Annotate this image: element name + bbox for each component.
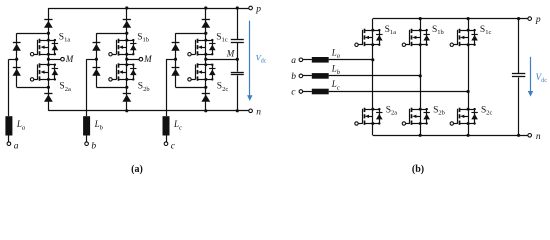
junction on p rail at leg b (b) — [419, 17, 422, 20]
junction on p rail at leg b — [125, 6, 128, 9]
column junction node phase c (a) — [174, 58, 177, 61]
top diode phase b (a) — [123, 19, 131, 21]
top diode phase c (a) — [202, 19, 210, 21]
inductor Lb (a) — [83, 116, 90, 135]
terminal M phase a (a) — [61, 57, 65, 61]
wire bottom node to freewheel column phase b (a) — [96, 87, 126, 89]
junction on n rail at leg b — [125, 109, 128, 112]
top node phase c (a) — [204, 32, 207, 35]
n rail (b) — [373, 135, 530, 137]
node M phase b (a) — [125, 58, 128, 61]
svg-text:n: n — [256, 107, 261, 117]
MOSFET S2c (b) — [453, 108, 478, 125]
column upper diode phase c (a) — [172, 42, 180, 44]
wire terminal to inductor phase b (b) — [303, 75, 312, 77]
MOSFET S2b — [112, 63, 137, 81]
wire lower capacitor to n rail (a) — [237, 75, 239, 110]
inductor feed wire phase b (a) — [86, 59, 88, 116]
wire inductor to leg phase c (b) — [329, 91, 468, 93]
svg-text:b: b — [91, 142, 96, 152]
leg wire phase c (a): bottom node to n rail — [205, 87, 207, 111]
feed node phase a (b) — [371, 58, 374, 61]
wire p rail to capacitor (b) — [518, 19, 520, 74]
leg wire phase a (a): bottom node to n rail — [48, 87, 50, 111]
svg-text:Lb: Lb — [331, 64, 341, 76]
junction on n rail at leg c — [204, 109, 207, 112]
upper dc-link capacitor (a) — [231, 39, 244, 41]
svg-text:La: La — [331, 48, 340, 60]
MOSFET S2a (b) — [358, 108, 383, 125]
leg wire phase a (a): p rail to top node — [48, 8, 50, 33]
column wire phase b (a) — [96, 33, 98, 87]
svg-text:c: c — [291, 88, 296, 98]
bottom node phase b (a) — [125, 86, 128, 89]
MOSFET S2a — [34, 63, 59, 81]
MOSFET S1b (b) gate terminal — [402, 43, 405, 46]
svg-text:S2a: S2a — [386, 105, 398, 116]
svg-text:S1b: S1b — [137, 33, 149, 44]
svg-text:Lc: Lc — [331, 79, 340, 91]
leg wire phase a (a): top node to M node — [48, 33, 50, 59]
junction on p rail at leg c — [204, 6, 207, 9]
wire terminal to inductor phase c (b) — [303, 91, 312, 93]
svg-text:Vdc: Vdc — [536, 72, 548, 84]
n rail junction at dc-link branch (a) — [236, 109, 239, 112]
svg-text:c: c — [171, 142, 176, 152]
svg-text:n: n — [536, 132, 541, 142]
leg wire phase a (b) — [372, 19, 374, 136]
MOSFET S2b gate terminal — [109, 78, 112, 81]
column lower diode phase a (a) — [13, 67, 21, 69]
MOSFET S2c — [191, 63, 216, 81]
leg wire phase c (b) — [468, 19, 470, 136]
dc-link branch (b): p rail junction — [517, 17, 520, 20]
wire midpoint to lower capacitor (a) — [237, 59, 239, 71]
svg-text:M: M — [226, 49, 235, 59]
wire inductor to leg phase b (b) — [329, 75, 421, 77]
leg wire phase b (a): M node to bottom node — [126, 59, 128, 87]
wire to M terminal phase b (a) — [127, 59, 139, 61]
leg wire phase c (a): top node to M node — [205, 33, 207, 59]
wire to M terminal phase a (a) — [48, 59, 60, 61]
svg-text:S2b: S2b — [138, 82, 150, 93]
n rail (a) — [48, 110, 250, 112]
svg-text:p: p — [255, 4, 261, 14]
column junction node phase a (a) — [15, 58, 18, 61]
svg-text:Lb: Lb — [94, 119, 104, 131]
svg-text:a: a — [14, 142, 19, 152]
leg wire phase b (a): bottom node to n rail — [126, 87, 128, 111]
wire column junction to inductor branch phase a (a) — [9, 59, 17, 61]
terminal c (a) — [164, 142, 168, 146]
svg-text:(b): (b) — [412, 164, 424, 175]
column wire phase c (a) — [175, 33, 177, 87]
leg wire phase c (a): p rail to top node — [205, 8, 207, 33]
MOSFET S1a (b) — [358, 29, 383, 47]
inductor Lc (a) — [163, 116, 170, 135]
svg-text:S2c: S2c — [481, 105, 493, 116]
Vdc arrow (a) — [249, 21, 251, 96]
svg-text:b: b — [291, 72, 296, 82]
terminal b (b) — [299, 74, 303, 78]
terminal a (a) — [7, 142, 11, 146]
top node phase b (a) — [125, 32, 128, 35]
leg wire phase c (a): M node to bottom node — [205, 59, 207, 87]
svg-text:Vdc: Vdc — [256, 53, 267, 65]
junction on p rail at leg c (b) — [467, 17, 470, 20]
inductor feed wire phase c (a) — [166, 59, 168, 116]
inductor Lb (b) — [312, 73, 329, 79]
svg-text:S1b: S1b — [432, 25, 444, 36]
wire p rail to upper capacitor (a) — [237, 8, 239, 39]
svg-text:Lc: Lc — [173, 119, 182, 131]
column junction node phase b (a) — [95, 58, 98, 61]
wire upper capacitor to midpoint M (a) — [237, 43, 239, 59]
svg-text:S1a: S1a — [59, 33, 71, 44]
MOSFET S2a (b) gate terminal — [355, 122, 358, 125]
bottom diode phase a (a) — [44, 93, 52, 95]
junction on n rail at leg c (b) — [467, 134, 470, 137]
bottom diode phase c (a) — [202, 93, 210, 95]
terminal c (b) — [299, 90, 303, 94]
n rail junction at dc-link branch (b) — [517, 134, 520, 137]
terminal p (a) — [249, 6, 253, 10]
wire inductor to leg phase a (b) — [329, 59, 373, 61]
column wire phase a (a) — [16, 33, 18, 87]
wire top node to freewheel column phase b (a) — [96, 33, 126, 35]
wire inductor to terminal a (a) — [8, 136, 10, 142]
MOSFET S1a — [34, 39, 59, 56]
dc-link branch (a): p rail junction — [236, 6, 239, 9]
svg-text:M: M — [65, 54, 74, 64]
wire column junction to inductor branch phase b (a) — [87, 59, 97, 61]
terminal n (a) — [249, 109, 253, 113]
MOSFET S1a (b) gate terminal — [355, 43, 358, 46]
inductor La (a) — [5, 116, 12, 135]
junction on n rail at leg b (b) — [419, 134, 422, 137]
inductor feed wire phase a (a) — [8, 59, 10, 116]
inductor Lc (b) — [312, 89, 329, 95]
bottom node phase a (a) — [47, 86, 50, 89]
node M phase c (a) — [204, 58, 207, 61]
column lower diode phase b (a) — [93, 67, 101, 69]
leg wire phase b (a): p rail to top node — [126, 8, 128, 33]
wire bottom node to freewheel column phase a (a) — [17, 87, 49, 89]
Vdc arrow (b) — [530, 57, 532, 92]
node M phase a (a) — [47, 58, 50, 61]
top node phase a (a) — [47, 32, 50, 35]
MOSFET S1c (b) — [453, 29, 478, 47]
dc-link capacitor (b) — [512, 73, 525, 75]
svg-text:S1c: S1c — [216, 33, 228, 44]
p rail (a) — [48, 8, 250, 10]
wire column junction to inductor branch phase c (a) — [166, 59, 176, 61]
svg-text:M: M — [143, 54, 152, 64]
terminal a (b) — [299, 58, 303, 62]
svg-text:La: La — [16, 119, 25, 131]
MOSFET S2b (b) — [406, 108, 431, 125]
feed node phase c (b) — [467, 90, 470, 93]
MOSFET S1b gate terminal — [109, 53, 112, 56]
wire top node to freewheel column phase c (a) — [176, 33, 206, 35]
terminal n (b) — [528, 134, 532, 138]
terminal p (b) — [528, 17, 532, 21]
wire bottom node to freewheel column phase c (a) — [176, 87, 206, 89]
svg-text:S2b: S2b — [433, 105, 445, 116]
svg-text:p: p — [535, 15, 541, 25]
wire inductor to terminal b (a) — [86, 136, 88, 142]
svg-text:S2a: S2a — [59, 82, 71, 93]
leg wire phase b (a): top node to M node — [126, 33, 128, 59]
wire capacitor to n rail (b) — [518, 77, 520, 135]
leg wire phase a (a): M node to bottom node — [48, 59, 50, 87]
MOSFET S1b — [112, 39, 137, 56]
MOSFET S1a gate terminal — [30, 53, 33, 56]
terminal b (a) — [85, 142, 89, 146]
column upper diode phase a (a) — [13, 42, 21, 44]
MOSFET S1b (b) — [406, 29, 431, 47]
svg-text:S1c: S1c — [480, 25, 492, 36]
wire inductor to terminal c (a) — [166, 136, 168, 142]
bottom diode phase b (a) — [123, 93, 131, 95]
svg-text:a: a — [291, 56, 296, 66]
MOSFET S1c — [191, 39, 216, 56]
inductor La (b) — [312, 57, 329, 63]
svg-text:S2c: S2c — [217, 82, 229, 93]
MOSFET S2c gate terminal — [188, 78, 191, 81]
wire top node to freewheel column phase a (a) — [17, 33, 49, 35]
MOSFET S2c (b) gate terminal — [450, 122, 453, 125]
bottom node phase c (a) — [204, 86, 207, 89]
svg-text:S1a: S1a — [385, 25, 397, 36]
MOSFET S1c gate terminal — [188, 53, 191, 56]
MOSFET S2b (b) gate terminal — [402, 122, 405, 125]
terminal M phase b (a) — [139, 57, 143, 61]
column lower diode phase c (a) — [172, 67, 180, 69]
MOSFET S1c (b) gate terminal — [450, 43, 453, 46]
column upper diode phase b (a) — [93, 42, 101, 44]
wire terminal to inductor phase a (b) — [303, 59, 312, 61]
svg-text:(a): (a) — [131, 164, 143, 175]
lower dc-link capacitor (a) — [231, 72, 244, 74]
top diode phase a (a) — [44, 19, 52, 21]
MOSFET S2a gate terminal — [30, 78, 33, 81]
feed node phase b (b) — [419, 74, 422, 77]
leg wire phase b (b) — [420, 19, 422, 136]
p rail (b) — [373, 18, 530, 20]
capacitor midpoint junction (a) — [236, 58, 239, 61]
wire M node of phase c to capacitor midpoint (a) — [206, 59, 238, 61]
